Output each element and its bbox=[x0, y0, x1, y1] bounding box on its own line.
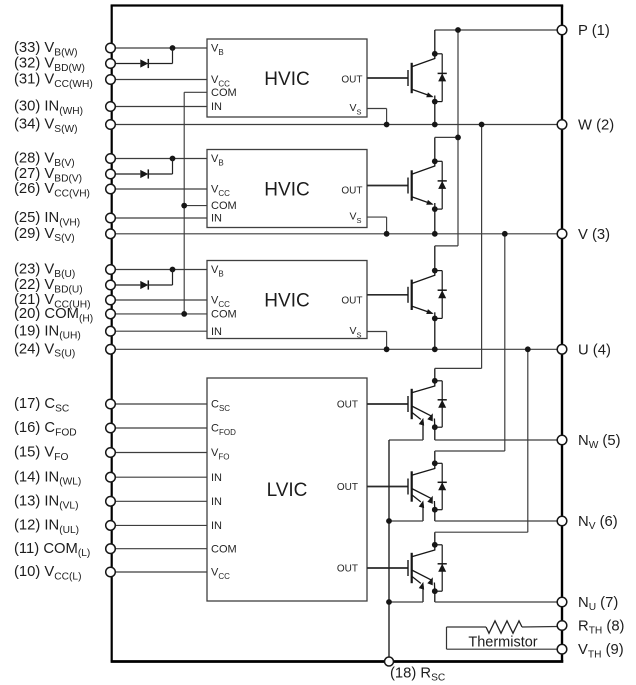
wire W sense emitter to RSC bbox=[389, 439, 423, 441]
terminal pin IN(UL) bbox=[106, 521, 116, 531]
diode FWD1 freewheel bbox=[435, 54, 447, 102]
svg-text:IN: IN bbox=[211, 520, 222, 532]
node COM HVIC2 junction bbox=[181, 203, 187, 209]
svg-text:IN: IN bbox=[211, 326, 222, 338]
terminal pin VFO bbox=[106, 448, 116, 458]
svg-text:V (3): V (3) bbox=[578, 227, 610, 243]
svg-text:P (1): P (1) bbox=[578, 23, 610, 39]
terminal pin VBD(U) bbox=[106, 280, 116, 290]
wire VB(U) terminal to HVIC bbox=[111, 269, 208, 271]
diode DU bootstrap bbox=[140, 280, 148, 289]
wire thermistor loop bbox=[447, 627, 558, 649]
terminal pin V(3) bbox=[557, 229, 567, 239]
wire IN(VH) terminal to HVIC bbox=[111, 217, 208, 219]
wire P bus line bbox=[435, 29, 562, 31]
wire CFOD terminal to LVIC bbox=[111, 427, 208, 429]
terminal pin NU(7) bbox=[557, 597, 567, 607]
op-amp U2 HVIC driver block bbox=[207, 150, 367, 228]
terminal pin VBD(W) bbox=[106, 59, 116, 69]
node COM(H) junction bbox=[181, 311, 187, 317]
terminal pin IN(UH) bbox=[106, 326, 116, 336]
op-amp U4 LVIC driver block bbox=[207, 378, 367, 601]
wire VS HVIC3 to phase node bbox=[367, 332, 387, 350]
terminal pin COM(H) bbox=[106, 309, 116, 319]
node Q3 emitter on phase line bbox=[432, 346, 438, 352]
svg-text:U (4): U (4) bbox=[578, 342, 611, 358]
node Q2 collector bbox=[432, 158, 438, 164]
wire VBD(V) cathode segment to VB node bbox=[148, 159, 172, 175]
node Q3 collector bbox=[432, 268, 438, 274]
svg-text:IN: IN bbox=[211, 472, 222, 484]
terminal pin VS(W) bbox=[106, 120, 116, 130]
node VB(V) junction bbox=[170, 156, 176, 162]
wire VBD(U) anode segment bbox=[111, 284, 141, 286]
node VB(W) junction bbox=[170, 45, 176, 51]
wire OUT HVIC3 gate lead bbox=[367, 294, 408, 296]
svg-text:COM: COM bbox=[211, 309, 237, 321]
node VS1 phase junction bbox=[384, 122, 390, 128]
svg-text:HVIC: HVIC bbox=[264, 291, 309, 312]
svg-text:NW (5): NW (5) bbox=[578, 433, 621, 451]
terminal pin IN(WL) bbox=[106, 472, 116, 482]
terminal pin VS(U) bbox=[106, 345, 116, 355]
node V feed junction bbox=[502, 231, 508, 237]
svg-text:COM: COM bbox=[211, 87, 237, 99]
node Q1 emitter on phase line bbox=[432, 122, 438, 128]
svg-text:OUT: OUT bbox=[341, 74, 362, 85]
node P feed junction bbox=[455, 27, 461, 33]
terminal pin VCC(L) bbox=[106, 567, 116, 577]
wire V phase feed to Q5 collector bbox=[435, 234, 505, 451]
wire RSC vertical bbox=[388, 440, 390, 662]
wire VS HVIC1 to phase node bbox=[367, 109, 387, 125]
wire OUT HVIC1 gate lead bbox=[367, 77, 408, 79]
wire IN(WL) terminal to LVIC bbox=[111, 476, 208, 478]
svg-text:Thermistor: Thermistor bbox=[468, 635, 537, 651]
node Q1 emitter diode junction bbox=[432, 99, 438, 105]
terminal pin IN(VL) bbox=[106, 497, 116, 507]
terminal pin VCC(UH) bbox=[106, 295, 116, 305]
node Q1 collector bbox=[432, 51, 438, 57]
wire VS(U) / U phase line bbox=[111, 348, 563, 350]
transistor Q1 IGBT W-phase high side bbox=[408, 30, 435, 125]
node Q4 emitter diode junction bbox=[432, 424, 438, 430]
op-amp U1 HVIC driver block bbox=[207, 39, 367, 117]
svg-text:NU (7): NU (7) bbox=[578, 595, 618, 613]
svg-text:IN: IN bbox=[211, 213, 222, 225]
wire U sense emitter to RSC bbox=[389, 601, 423, 603]
wire VBD(W) anode segment bbox=[111, 63, 141, 65]
wire V sense emitter to RSC bbox=[389, 520, 423, 522]
wire NV emitter line bbox=[435, 520, 562, 522]
node Q5 emitter diode junction bbox=[432, 507, 438, 513]
terminal pin U(4) bbox=[557, 345, 567, 355]
wire VCC(L) terminal to LVIC bbox=[111, 571, 208, 573]
terminal pin COM(L) bbox=[106, 544, 116, 554]
svg-text:OUT: OUT bbox=[337, 563, 358, 574]
node VS3 phase junction bbox=[384, 346, 390, 352]
wire VFO terminal to LVIC bbox=[111, 452, 208, 454]
transistor Q6 IGBT U-phase low side bbox=[408, 532, 435, 602]
wire P feed to Q2 Q3 collectors bbox=[435, 30, 458, 246]
node Q2 emitter diode junction bbox=[432, 206, 438, 212]
node Q3 emitter diode junction bbox=[432, 316, 438, 322]
svg-text:LVIC: LVIC bbox=[267, 480, 308, 501]
terminal pin VCC(VH) bbox=[106, 184, 116, 194]
node VB(U) junction bbox=[170, 267, 176, 273]
svg-text:HVIC: HVIC bbox=[264, 180, 309, 201]
diode DV bootstrap bbox=[140, 169, 148, 178]
transistor Q4 IGBT W-phase low side bbox=[408, 368, 435, 440]
diode FWD3 freewheel bbox=[435, 271, 447, 319]
terminal pin RSC bbox=[385, 657, 394, 666]
node Q2 collector feed junction bbox=[455, 135, 461, 141]
diode DW bootstrap bbox=[140, 59, 148, 68]
op-amp U3 HVIC driver block bbox=[207, 261, 367, 339]
node Q6 collector bbox=[432, 542, 438, 548]
wire W phase feed to Q4 collector bbox=[435, 125, 482, 369]
wire VCC(UH) terminal to HVIC bbox=[111, 299, 208, 301]
svg-text:OUT: OUT bbox=[337, 482, 358, 493]
terminal pin VCC(WH) bbox=[106, 75, 116, 85]
wire IN(WH) terminal to HVIC bbox=[111, 106, 208, 108]
node Q6 emitter diode junction bbox=[432, 588, 438, 594]
wire OUT LVIC gate lead Q6 bbox=[367, 567, 408, 569]
node V sense junction bbox=[386, 518, 392, 524]
terminal pin CFOD bbox=[106, 423, 116, 433]
wire VS(W) / W phase line bbox=[111, 124, 563, 126]
node Q5 collector bbox=[432, 460, 438, 466]
svg-text:OUT: OUT bbox=[337, 399, 358, 410]
transistor Q5 IGBT V-phase low side bbox=[408, 451, 435, 521]
svg-text:HVIC: HVIC bbox=[264, 69, 309, 90]
transistor Q2 IGBT V-phase high side bbox=[408, 137, 435, 233]
wire VBD(W) cathode segment to VB node bbox=[148, 48, 172, 64]
diode FWD2 freewheel bbox=[435, 161, 447, 209]
wire VBD(V) anode segment bbox=[111, 173, 141, 175]
terminal pin P(1) bbox=[557, 25, 567, 35]
wire U phase feed to Q6 collector bbox=[435, 349, 528, 532]
terminal pin VTH(9) bbox=[557, 644, 567, 654]
wire COM chain vertical bbox=[184, 92, 207, 314]
node W feed junction bbox=[479, 122, 485, 128]
module outline border bbox=[111, 6, 564, 662]
wire VB(W) terminal to HVIC bbox=[111, 47, 208, 49]
terminal pin RTH(8) bbox=[557, 621, 567, 631]
wire VBD(U) cathode segment to VB node bbox=[148, 270, 172, 286]
wire COM(L) terminal to LVIC bbox=[111, 548, 208, 550]
wire OUT LVIC gate lead Q4 bbox=[367, 403, 408, 405]
diode FWD6 freewheel bbox=[435, 545, 447, 591]
terminal pin VB(U) bbox=[106, 265, 116, 275]
svg-text:IN: IN bbox=[211, 101, 222, 113]
terminal pin CSC bbox=[106, 399, 116, 409]
terminal pin VB(W) bbox=[106, 43, 116, 53]
node Q2 emitter on phase line bbox=[432, 231, 438, 237]
node U feed junction bbox=[525, 346, 531, 352]
node Q4 collector bbox=[432, 378, 438, 384]
resistor RTH thermistor element bbox=[486, 621, 558, 633]
wire CSC terminal to LVIC bbox=[111, 403, 208, 405]
svg-text:COM: COM bbox=[211, 200, 237, 212]
svg-text:IN: IN bbox=[211, 496, 222, 508]
diode FWD5 freewheel bbox=[435, 463, 447, 509]
terminal pin VS(V) bbox=[106, 229, 116, 239]
wire VCC(WH) terminal to HVIC bbox=[111, 79, 208, 81]
terminal pin VBD(V) bbox=[106, 169, 116, 179]
svg-text:VTH (9): VTH (9) bbox=[578, 642, 624, 660]
wire IN(UH) terminal to HVIC bbox=[111, 330, 208, 332]
terminal pin NV(6) bbox=[557, 516, 567, 526]
diode FWD4 freewheel bbox=[435, 381, 447, 427]
wire OUT LVIC gate lead Q5 bbox=[367, 486, 408, 488]
wire OUT HVIC2 gate lead bbox=[367, 185, 408, 187]
terminal pin IN(WH) bbox=[106, 102, 116, 112]
wire VB(V) terminal to HVIC bbox=[111, 158, 208, 160]
svg-text:COM: COM bbox=[211, 543, 237, 555]
wire VS HVIC2 to phase node bbox=[367, 217, 387, 234]
terminal pin VB(V) bbox=[106, 154, 116, 164]
node U sense junction bbox=[386, 599, 392, 605]
wire VCC(VH) terminal to HVIC bbox=[111, 188, 208, 190]
transistor Q3 IGBT U-phase high side bbox=[408, 246, 435, 349]
terminal pin W(2) bbox=[557, 120, 567, 130]
svg-text:OUT: OUT bbox=[341, 296, 362, 307]
svg-text:W (2): W (2) bbox=[578, 118, 614, 134]
wire IN(UL) terminal to LVIC bbox=[111, 524, 208, 526]
svg-text:OUT: OUT bbox=[341, 185, 362, 196]
node VS2 phase junction bbox=[384, 231, 390, 237]
wire COM(H) terminal line bbox=[111, 313, 208, 315]
wire VS(V) / V phase line bbox=[111, 233, 563, 235]
wire NW emitter line bbox=[435, 439, 562, 441]
wire IN(VL) terminal to LVIC bbox=[111, 500, 208, 502]
terminal pin NW(5) bbox=[557, 435, 567, 445]
svg-text:NV (6): NV (6) bbox=[578, 514, 618, 532]
terminal pin IN(VH) bbox=[106, 213, 116, 223]
wire NU emitter line bbox=[435, 601, 562, 603]
